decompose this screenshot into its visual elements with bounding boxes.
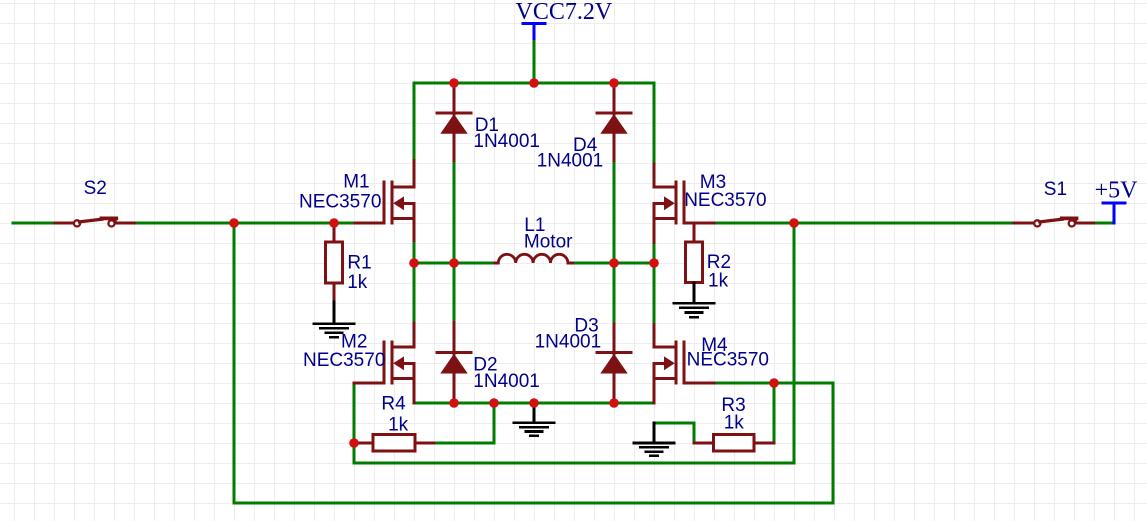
junction S2 branch <box>229 218 239 228</box>
junction R4 branch on bottom rail <box>489 398 499 408</box>
svg-text:R1: R1 <box>347 253 371 274</box>
wire R3 right lead up to M4 gate node <box>773 383 776 442</box>
svg-text:1k: 1k <box>388 414 409 435</box>
wire M3 gate to S1 <box>714 222 1014 225</box>
wire middle rail to M2 drain <box>413 263 416 323</box>
svg-text:1k: 1k <box>347 272 368 293</box>
junction R1 and M1 gate <box>329 218 339 228</box>
resistor R3 1k <box>694 435 774 451</box>
junction ground on bottom rail <box>529 398 539 408</box>
resistor R4 1k <box>354 435 434 451</box>
svg-text:NEC3570: NEC3570 <box>687 350 769 371</box>
switch S2 <box>55 218 134 226</box>
svg-text:1N4001: 1N4001 <box>537 151 604 172</box>
svg-text:S2: S2 <box>84 178 107 199</box>
junction D2 anode on bottom rail <box>449 398 459 408</box>
junction D3 anode on bottom rail <box>609 398 619 408</box>
wire D1 anode to middle rail <box>453 161 456 264</box>
svg-text:1N4001: 1N4001 <box>473 371 540 392</box>
wire D4 anode to middle rail <box>613 161 616 264</box>
junction D1 cathode on top rail <box>449 78 459 88</box>
wire M1 source drop <box>413 241 416 264</box>
junction R3 top on M4 gate run <box>769 378 779 388</box>
svg-text:+5V: +5V <box>1095 178 1139 204</box>
junction S1 branch <box>789 218 799 228</box>
wire S1 to +5V <box>1093 222 1114 225</box>
wire right branch up <box>832 383 835 503</box>
diode D2 1N4001 <box>437 323 471 404</box>
inductor L1 Motor <box>495 254 573 263</box>
transistor M2 NEC3570 <box>354 323 414 403</box>
diode D1 1N4001 <box>437 83 471 161</box>
wire S2 to M1 gate <box>134 222 356 225</box>
junction VCC on top rail <box>529 78 539 88</box>
svg-text:NEC3570: NEC3570 <box>303 350 385 371</box>
ground left of R3 <box>634 423 674 456</box>
wire top rail left corner down to M1 drain <box>413 83 416 161</box>
svg-text:VCC7.2V: VCC7.2V <box>516 0 613 25</box>
svg-text:NEC3570: NEC3570 <box>684 190 766 211</box>
wire middle rail left <box>414 262 495 265</box>
wire R4 to bottom rail branch <box>434 403 494 443</box>
svg-text:1N4001: 1N4001 <box>535 331 602 352</box>
junction D1 D2 on middle rail <box>449 258 459 268</box>
ground below R2 <box>674 283 714 318</box>
wire cross run to M2 gate <box>354 462 794 465</box>
wire R3 left lead to ground <box>654 423 694 443</box>
ground center below bottom rail <box>514 403 554 436</box>
junction D3 D4 on middle rail <box>609 258 619 268</box>
transistor M4 NEC3570 <box>654 324 714 403</box>
wire middle rail to D3 cathode <box>613 263 616 324</box>
wire S2 node down left branch <box>233 223 236 503</box>
wire top rail right corner down to M3 drain <box>653 83 656 164</box>
svg-text:1k: 1k <box>708 270 729 291</box>
svg-text:NEC3570: NEC3570 <box>299 192 381 213</box>
transistor M3 NEC3570 <box>654 164 714 243</box>
svg-text:S1: S1 <box>1044 179 1067 200</box>
junction M3 source on middle rail <box>649 258 659 268</box>
resistor R1 1k <box>325 223 342 302</box>
svg-text:Motor: Motor <box>524 231 573 252</box>
junction M1 source on middle rail <box>409 258 419 268</box>
wire S1 node down branch <box>793 223 796 463</box>
wire M2 gate drop <box>353 383 356 463</box>
wire middle rail to D2 cathode <box>453 263 456 323</box>
power symbol +5V <box>1103 203 1125 223</box>
wire M3 source drop <box>653 243 656 263</box>
wire S2 input <box>13 222 55 225</box>
wire top rail <box>414 82 654 85</box>
junction R4 left on M2 gate drop <box>349 438 359 448</box>
wire bottom long run <box>234 502 833 505</box>
wire middle rail right <box>572 262 654 265</box>
svg-text:1N4001: 1N4001 <box>473 131 540 152</box>
wire middle rail to M4 drain <box>653 263 656 324</box>
resistor R2 1k <box>685 223 702 283</box>
junction D4 cathode on top rail <box>609 78 619 88</box>
wire bottom rail <box>414 402 654 405</box>
ground below R1 <box>314 302 354 337</box>
svg-text:1k: 1k <box>724 413 745 434</box>
power symbol VCC7.2V <box>523 24 545 42</box>
switch S1 <box>1014 218 1093 226</box>
diode D4 1N4001 <box>597 83 631 161</box>
transistor M1 NEC3570 <box>355 161 414 241</box>
svg-text:M1: M1 <box>343 172 369 193</box>
wire to M4 gate <box>714 382 833 385</box>
svg-text:R4: R4 <box>381 394 406 415</box>
diode D3 1N4001 <box>597 324 631 403</box>
wire VCC stem <box>533 41 536 83</box>
